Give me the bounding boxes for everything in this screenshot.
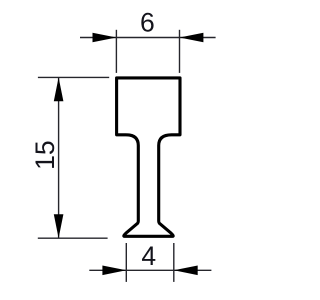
- dim 6: right extension line: [179, 30, 181, 73]
- svg-text:4: 4: [141, 241, 156, 271]
- dim 6: left extension line: [115, 30, 117, 73]
- dim 6: dimension line: [80, 37, 216, 39]
- dim 15: dimension line: [58, 77, 60, 238]
- dim 15: bottom arrow: [54, 214, 64, 238]
- dim 4: left extension line: [125, 243, 127, 282]
- profile outline: [117, 78, 180, 236]
- svg-text:15: 15: [30, 140, 60, 169]
- dim 6: right arrow: [180, 33, 204, 43]
- dim 4: dimension line: [89, 269, 211, 271]
- dim 6: left arrow: [93, 33, 117, 43]
- svg-text:6: 6: [140, 8, 155, 38]
- dim 15: bottom extension line: [38, 237, 108, 239]
- dim 4: right arrow: [174, 266, 198, 276]
- dim 15: top arrow: [54, 77, 64, 101]
- dim 4: right extension line: [173, 243, 175, 282]
- dim 4: left arrow: [102, 266, 126, 276]
- dim 15: top extension line: [38, 76, 109, 78]
